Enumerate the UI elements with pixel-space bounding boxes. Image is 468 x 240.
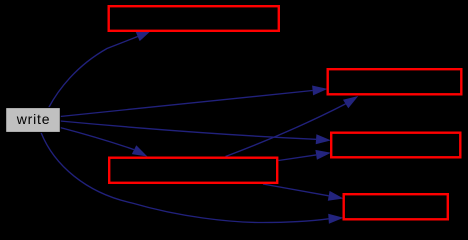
node B1 (red box, top) (109, 6, 279, 31)
edge write->B4 (long bottom curve) (41, 133, 329, 223)
edge B5->B4 (263, 184, 329, 196)
edge write->B5 (60, 128, 134, 150)
edge B5->B2 (226, 104, 346, 157)
node B2 (red box, upper right) (328, 69, 462, 94)
arrowhead B5->B3 (315, 150, 331, 160)
edge write->B3 (60, 121, 316, 139)
arrowhead write->B3 (316, 134, 331, 144)
arrowhead write->B2 (312, 86, 327, 96)
arrowhead B5->B2 (343, 96, 358, 108)
node B4 (red box, bottom right) (344, 194, 448, 219)
arrowhead write->B4 (328, 214, 343, 224)
arrowhead write->B1 (136, 30, 152, 41)
node write (grey box with label) (6, 108, 61, 133)
edge B5->B3 (279, 155, 317, 161)
node B3 (red box, middle right) (331, 133, 460, 158)
node B5 (red box, bottom middle-left) (109, 158, 277, 183)
edge write->B2 (60, 91, 313, 117)
svg-text:write: write (16, 111, 51, 127)
arrowhead write->B5 (132, 145, 148, 156)
arrowhead B5->B4 (328, 191, 344, 201)
edge write->B1 (curved) (49, 37, 138, 109)
